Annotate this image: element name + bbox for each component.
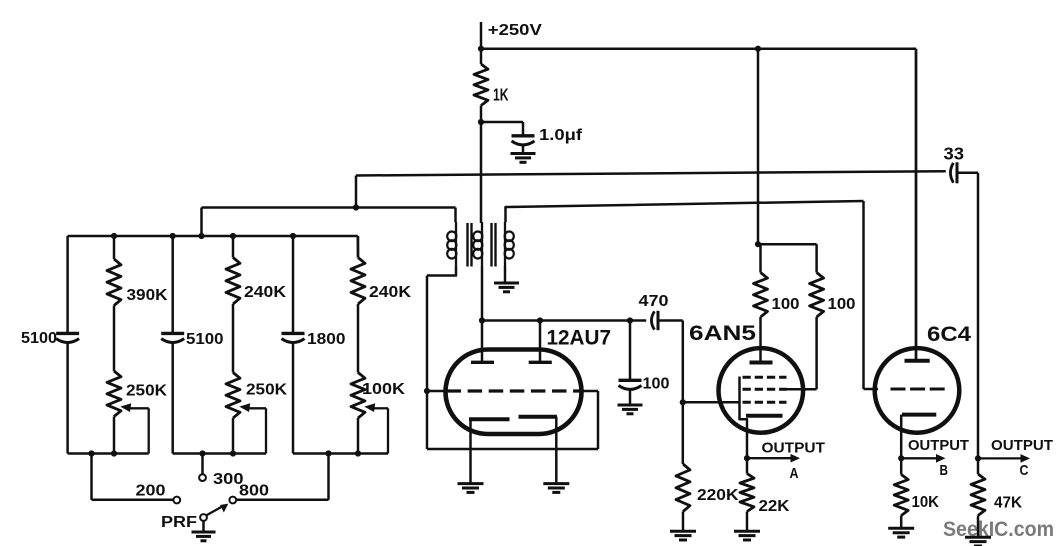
svg-text:B: B	[940, 462, 949, 479]
svg-text:100: 100	[772, 296, 800, 313]
svg-text:200: 200	[136, 483, 166, 500]
svg-text:OUTPUT: OUTPUT	[991, 437, 1053, 454]
svg-text:100K: 100K	[362, 381, 406, 398]
svg-text:PRF: PRF	[161, 514, 197, 531]
svg-text:C: C	[1020, 462, 1029, 479]
svg-text:220K: 220K	[697, 487, 739, 504]
svg-text:10K: 10K	[912, 494, 940, 511]
svg-text:240K: 240K	[244, 284, 286, 301]
svg-text:250K: 250K	[126, 383, 167, 400]
svg-text:33: 33	[944, 144, 965, 164]
svg-text:100: 100	[643, 376, 670, 393]
svg-text:A: A	[790, 465, 799, 482]
svg-text:5100: 5100	[186, 331, 224, 348]
svg-text:12AU7: 12AU7	[547, 327, 612, 350]
svg-text:6AN5: 6AN5	[689, 322, 756, 345]
svg-text:240K: 240K	[369, 284, 411, 301]
svg-text:6C4: 6C4	[927, 323, 971, 346]
svg-text:470: 470	[639, 293, 669, 310]
svg-text:OUTPUT: OUTPUT	[908, 437, 969, 454]
svg-text:22K: 22K	[759, 498, 790, 515]
svg-text:250K: 250K	[246, 382, 287, 399]
svg-text:800: 800	[239, 483, 269, 500]
svg-text:1K: 1K	[493, 85, 509, 105]
svg-text:5100: 5100	[21, 330, 57, 347]
svg-text:47K: 47K	[994, 495, 1022, 512]
svg-text:100: 100	[828, 296, 856, 313]
svg-text:SeekIC.com: SeekIC.com	[943, 517, 1054, 541]
svg-text:OUTPUT: OUTPUT	[762, 440, 826, 457]
svg-text:+250V: +250V	[488, 22, 543, 39]
svg-text:1800: 1800	[307, 331, 346, 348]
svg-text:1.0μf: 1.0μf	[539, 127, 583, 144]
svg-text:390K: 390K	[127, 287, 168, 304]
